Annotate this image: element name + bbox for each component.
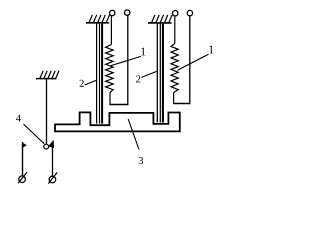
label 2 leader (left)	[85, 80, 97, 85]
fixed support S2 (above left cylinder)	[86, 15, 110, 23]
label 3 leader	[128, 119, 139, 150]
arrowhead on right follower rod	[48, 140, 54, 148]
pin circle A1 (left)	[110, 10, 115, 15]
wire: bottom bar (right group)	[173, 103, 190, 105]
label 2 (right)	[136, 75, 140, 82]
roller W1 (left wheel)	[19, 176, 26, 183]
wire: stub from A1 to spring	[110, 16, 112, 45]
label 1 (left)	[141, 48, 145, 56]
label 1 (right)	[209, 46, 213, 54]
label 1 leader (right)	[177, 54, 208, 70]
wire: hanger rod from support S1 to node	[46, 79, 48, 144]
label 4	[16, 115, 21, 122]
cylinder guide 2 (right, three vertical lines)	[157, 24, 163, 123]
spring 1 (left)	[106, 45, 114, 93]
wire: stub from A2 to spring	[174, 16, 176, 44]
wire: spring bottom stub (left)	[109, 93, 111, 105]
pin circle B1 (left)	[125, 10, 130, 15]
label 3	[139, 157, 143, 164]
label 2 leader (right)	[141, 71, 156, 77]
cylinder guide 2 (left, three vertical lines)	[97, 24, 103, 124]
wire: rod from B1 down to bar	[127, 15, 129, 104]
platform 3 (stepped base block)	[55, 112, 180, 131]
label 2 (left)	[80, 80, 84, 87]
wire: spring bottom stub (right)	[173, 93, 175, 104]
label 4 leader	[24, 124, 45, 144]
fixed support S1 (upper left wall)	[36, 71, 59, 79]
pin circle B2 (right)	[187, 10, 192, 15]
wire: left follower rod	[22, 142, 24, 176]
spring 1 (right)	[171, 44, 178, 93]
fixed support S3 (above right cylinder)	[148, 15, 172, 23]
node P (pivot circle)	[44, 144, 49, 149]
label 1 leader (left)	[110, 56, 141, 66]
wire: rod from B2 down to bar	[189, 16, 191, 104]
wire: bottom bar (left group)	[109, 104, 128, 106]
wire: right follower rod	[52, 145, 54, 176]
pin circle A2 (right)	[173, 11, 178, 16]
roller W2 (right wheel)	[49, 176, 56, 183]
arrowhead on left follower rod	[23, 143, 27, 148]
